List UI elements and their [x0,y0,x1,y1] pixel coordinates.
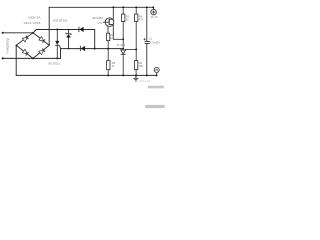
wire top rail [49,6,153,8]
node R6 ground on bottom rail [135,74,137,76]
wire AC1 top-left horizontal [3,32,33,34]
junction dots [16,6,158,76]
bridge diode VD3 (lower-left side) [22,49,28,55]
node SCR anode on wire A [56,29,58,31]
wire bottom rail [16,74,156,76]
node C1 on bottom rail [146,74,148,76]
node bridge bottom corner [32,57,34,59]
watermark bar 1 [148,86,164,89]
svg-text:VD1-VD4: VD1-VD4 [24,21,41,25]
node terminal on top rail [152,6,154,8]
bridge diode VD1 (upper-left side) [22,36,28,42]
svg-text:47µ×25V: 47µ×25V [150,42,160,45]
resistor R2 [107,33,110,48]
node zener top on wire A [68,29,70,31]
node R3 on top rail [122,6,124,8]
IC DA1 TL431 [121,49,137,75]
node bridge left corner [16,45,18,47]
node minus terminal on bottom rail [156,74,158,76]
generator terminal bottom [2,57,4,59]
wire A mid horizontal [33,30,94,33]
svg-text:VD5 BT151: VD5 BT151 [53,18,68,22]
svg-text:2011-08: 2011-08 [140,79,151,83]
svg-text:14,3V: 14,3V [150,15,158,19]
node wire B at TL431 column [122,48,124,50]
ground symbol [133,75,138,81]
diode VD6 on wire A (pointing left) [79,27,84,32]
node R5 on bottom rail [107,74,109,76]
svg-text:TL431: TL431 [116,43,126,47]
bridge diode VD4 (lower-right side) [39,49,45,55]
thyristor VS1 BT151 [55,30,60,59]
watermark bar 2 [145,105,165,108]
node JFET source at R3 column [122,38,124,40]
svg-text:47k: 47k [139,17,144,21]
wire plus column from bridge right corner [48,7,50,45]
node R4 on top rail [135,6,137,8]
node C1 on top rail [146,6,148,8]
wire corner column A to B [94,30,96,49]
svg-text:Генератор: Генератор [6,38,10,53]
svg-text:C1: C1 [149,36,153,40]
resistor R5 [107,49,110,76]
zener diode VD5 [66,30,71,49]
generator terminal top [2,32,4,34]
node zener bottom on wire B [68,48,69,49]
wire gate node down to AC2 wire [60,49,62,59]
capacitor C1 [145,7,150,75]
resistor R4 [135,7,138,60]
wire B gate horizontal [61,48,124,50]
resistor R6 [134,61,137,76]
node SCR cathode on AC2 wire [56,57,58,59]
output terminal minus [154,67,159,75]
bridge diode VD2 (upper-right side) [39,37,45,43]
resistor R3 [122,7,125,50]
diode VD7 on wire B (pointing left) [80,46,85,51]
svg-text:10k: 10k [139,64,144,68]
output terminal plus [151,7,157,15]
node R2 R5 on wire B [107,48,109,50]
svg-text:BF245A: BF245A [93,16,104,20]
svg-text:VS1 BT151: VS1 BT151 [48,62,60,66]
label plus of C1 [144,38,146,40]
node JFET drain on top rail [112,6,114,8]
wire minus column from bridge left corner [15,45,17,75]
node ref at R4 column [135,48,137,50]
wire AC2 bottom-left horizontal [3,57,61,59]
node bridge top corner [32,32,34,34]
node column AB on wire B [94,48,96,50]
node TL431 on bottom rail [122,74,124,76]
svg-text:VT1: VT1 [98,21,103,25]
transistor VT1 BF245A (JFET) [103,7,123,39]
svg-text:100V 5A: 100V 5A [28,15,41,19]
bridge diamond outline [16,33,49,59]
